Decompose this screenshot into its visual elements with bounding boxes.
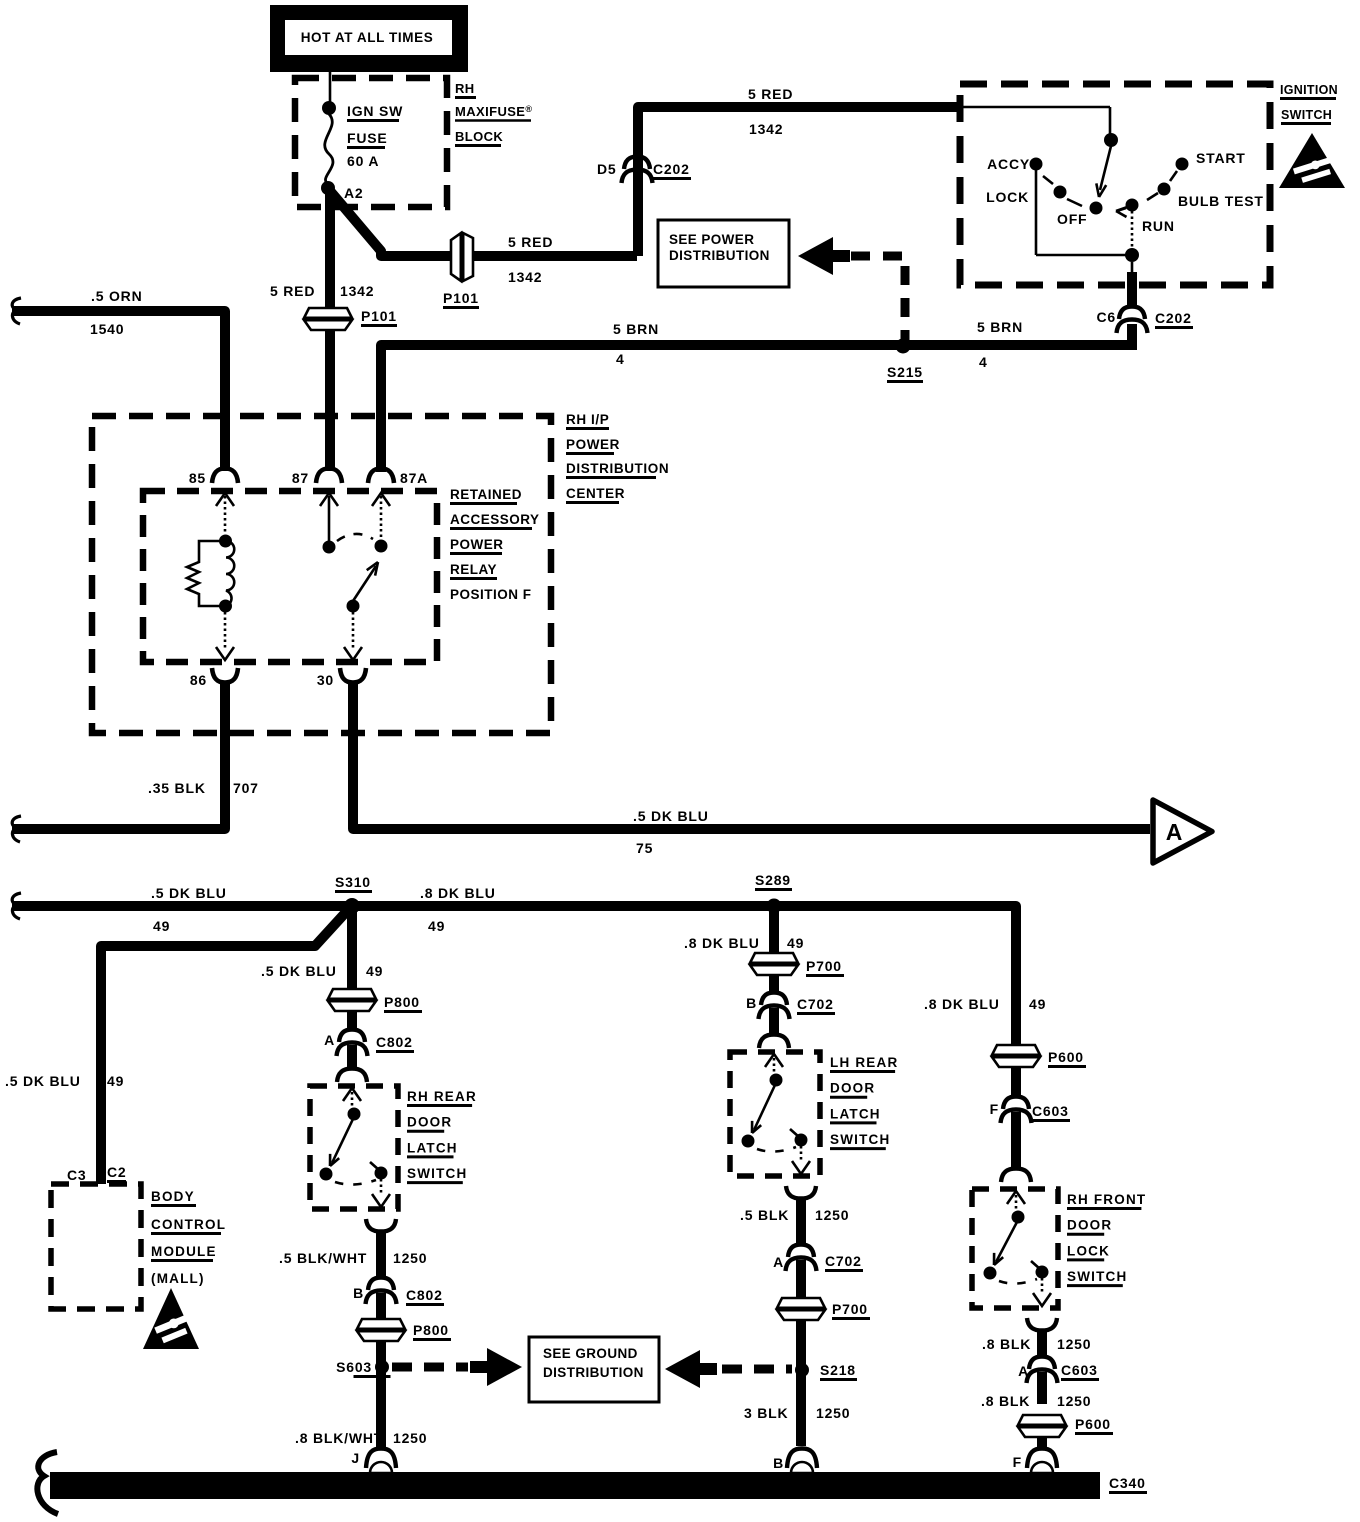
svg-text:LOCK: LOCK: [1067, 1243, 1110, 1258]
LH REAR DOOR LATCH SWITCH: entry arrow: [765, 1054, 783, 1067]
body control module box (dashed): [51, 1184, 141, 1309]
connector bell: [366, 1219, 396, 1232]
block arrow to SEE GROUND box: [487, 1348, 522, 1386]
wire: .5 ORN 1540 from left edge: [12, 311, 225, 471]
ignition: pivot dot: [1104, 133, 1118, 147]
bell into LH REAR switch: [759, 1035, 789, 1049]
svg-text:49: 49: [428, 918, 445, 934]
wire: [347, 1045, 357, 1068]
svg-text:MODULE: MODULE: [151, 1244, 217, 1259]
ignition: BULB TEST contact: [1158, 183, 1171, 196]
connector bell: [340, 668, 366, 683]
svg-text:DISTRIBUTION: DISTRIBUTION: [566, 461, 669, 476]
RH REAR DOOR LATCH SWITCH: wiper arm: [332, 1119, 353, 1163]
svg-text:(MALL): (MALL): [151, 1271, 205, 1286]
svg-text:RH FRONT: RH FRONT: [1067, 1192, 1146, 1207]
connector bell: [368, 1278, 394, 1291]
svg-text:.5 DK BLU: .5 DK BLU: [151, 885, 227, 901]
svg-text:OFF: OFF: [1057, 211, 1087, 227]
connector bell: [212, 469, 238, 484]
connector bell: [337, 1043, 368, 1057]
svg-text:1342: 1342: [749, 121, 783, 137]
svg-text:RH: RH: [455, 81, 475, 96]
svg-text:3 BLK: 3 BLK: [744, 1405, 788, 1421]
wire: [1037, 1372, 1047, 1404]
wire: A2 diagonal to horizontal 5 RED run: [331, 192, 637, 256]
svg-text:49: 49: [1029, 996, 1046, 1012]
svg-text:RELAY: RELAY: [450, 562, 497, 577]
bell into RH FRONT switch: [1001, 1169, 1031, 1183]
wire: 5 BRN bus: [381, 345, 1137, 472]
splice S218: [795, 1363, 809, 1377]
dashed wire S603 to ground-distribution arrow: [392, 1363, 468, 1372]
ESD caution triangle (BCM): [143, 1288, 199, 1349]
relay contact 87: [323, 541, 336, 554]
svg-text:SWITCH: SWITCH: [407, 1166, 467, 1181]
wire: [1127, 324, 1137, 346]
fuse box (dashed) RH MAXIFUSE BLOCK: [295, 78, 447, 207]
LH REAR DOOR LATCH SWITCH: [730, 1052, 820, 1176]
wire: [1011, 1112, 1021, 1168]
svg-text:.5 DK BLU: .5 DK BLU: [261, 963, 337, 979]
ignition: output stub to C6: [1131, 262, 1134, 272]
svg-text:P101: P101: [361, 308, 397, 324]
svg-text:LATCH: LATCH: [407, 1140, 458, 1155]
wire: [796, 1199, 806, 1244]
svg-text:J: J: [351, 1450, 360, 1466]
connector bell: [761, 993, 787, 1006]
SEE GROUND DISTRIBUTION box: [529, 1337, 659, 1402]
svg-text:A2: A2: [344, 185, 364, 201]
svg-text:START: START: [1196, 150, 1246, 166]
wire: pin 86 to left edge (.35 BLK 707): [12, 682, 225, 829]
HOT AT ALL TIMES banner: [270, 5, 468, 72]
svg-text:C6: C6: [1097, 309, 1117, 325]
RH FRONT DOOR LOCK SWITCH: [972, 1189, 1058, 1308]
pass-through P101 (vertical, on horizontal wire): [451, 233, 473, 281]
wire: [376, 1293, 386, 1318]
wire: [347, 1012, 357, 1029]
svg-text:SWITCH: SWITCH: [1067, 1269, 1127, 1284]
pass-through P600: [992, 1045, 1040, 1067]
RH FRONT DOOR LOCK SWITCH: wiper arm: [996, 1222, 1017, 1262]
svg-text:BULB TEST: BULB TEST: [1178, 193, 1264, 209]
wire: [1127, 272, 1137, 306]
svg-text:49: 49: [107, 1073, 124, 1089]
LH REAR DOOR LATCH SWITCH: NO contact: [795, 1134, 808, 1147]
pass-through P800: [328, 989, 376, 1011]
svg-text:C603: C603: [1061, 1362, 1098, 1378]
svg-text:RH I/P: RH I/P: [566, 412, 609, 427]
svg-text:85: 85: [189, 470, 206, 486]
pass-through P600 (lower): [1018, 1415, 1066, 1437]
connector bell: [786, 1186, 816, 1199]
wire: [347, 911, 357, 990]
svg-text:5 BRN: 5 BRN: [977, 319, 1023, 335]
ignition: START contact: [1176, 158, 1189, 171]
wire: [796, 1321, 806, 1446]
relay pin 30: [352, 612, 355, 650]
connector bell: [1029, 1357, 1055, 1370]
svg-text:S289: S289: [755, 872, 791, 888]
SIR caution triangle: [1279, 133, 1345, 188]
ignition switch box (dashed): [960, 84, 1270, 285]
off-page triangle A: [1153, 800, 1212, 863]
connector bell: [1027, 1318, 1057, 1331]
svg-text:POWER: POWER: [566, 437, 620, 452]
svg-text:1250: 1250: [1057, 1393, 1091, 1409]
wire: [376, 1342, 386, 1448]
relay pin 86: [224, 612, 227, 650]
connector bell: [1119, 307, 1145, 320]
svg-text:.8 BLK: .8 BLK: [981, 1393, 1030, 1409]
svg-text:.5 BLK: .5 BLK: [740, 1207, 789, 1223]
svg-text:.8 BLK: .8 BLK: [982, 1336, 1031, 1352]
svg-text:F: F: [990, 1101, 999, 1117]
connector bell: [787, 1449, 817, 1469]
relay contact 87A: [375, 540, 388, 553]
RH FRONT DOOR LOCK SWITCH: entry arrow: [1007, 1191, 1025, 1204]
svg-text:.8 DK BLU: .8 DK BLU: [420, 885, 496, 901]
svg-text:HOT AT ALL TIMES: HOT AT ALL TIMES: [301, 30, 434, 45]
svg-text:ACCESSORY: ACCESSORY: [450, 512, 540, 527]
RH REAR DOOR LATCH SWITCH: travel arc (dashed): [335, 1180, 376, 1185]
svg-text:CENTER: CENTER: [566, 486, 625, 501]
connector bell: [1027, 1449, 1057, 1469]
svg-text:.5 ORN: .5 ORN: [91, 288, 142, 304]
svg-text:LOCK: LOCK: [986, 189, 1029, 205]
svg-text:S215: S215: [887, 364, 923, 380]
RH REAR DOOR LATCH SWITCH: common contact: [348, 1108, 361, 1121]
svg-text:4: 4: [616, 351, 625, 367]
LH REAR DOOR LATCH SWITCH: common contact: [770, 1074, 783, 1087]
svg-text:P800: P800: [413, 1322, 449, 1338]
svg-text:5 RED: 5 RED: [748, 86, 793, 102]
ignition: moving arm with arrow: [1100, 146, 1111, 190]
svg-text:86: 86: [190, 672, 207, 688]
connector bell: [1003, 1097, 1029, 1110]
relay coil: [219, 535, 232, 548]
connector bell: [622, 170, 653, 184]
wire: S310 branch to BCM: [101, 911, 347, 1184]
svg-text:IGN SW: IGN SW: [347, 103, 403, 119]
svg-text:BLOCK: BLOCK: [455, 129, 503, 144]
svg-text:SEE GROUND: SEE GROUND: [543, 1346, 638, 1361]
wire: [796, 1260, 806, 1297]
connector bell: [366, 1449, 396, 1469]
svg-text:1250: 1250: [393, 1250, 427, 1266]
svg-text:75: 75: [636, 840, 653, 856]
block arrow into SEE POWER box: [798, 237, 833, 275]
svg-text:.5 DK BLU: .5 DK BLU: [5, 1073, 81, 1089]
svg-text:FUSE: FUSE: [347, 130, 388, 146]
splice S603: [375, 1360, 389, 1374]
svg-text:C603: C603: [1032, 1103, 1069, 1119]
connector bell: [759, 1006, 790, 1020]
svg-text:POSITION F: POSITION F: [450, 587, 532, 602]
svg-text:4: 4: [979, 354, 988, 370]
svg-text:49: 49: [153, 918, 170, 934]
ignition: ACCY contact: [1030, 158, 1043, 171]
ignition: RUN contact with arm: [1126, 199, 1139, 212]
splice S289: [767, 899, 782, 914]
RH REAR DOOR LATCH SWITCH: [310, 1086, 398, 1209]
svg-text:P101: P101: [443, 290, 479, 306]
svg-text:B: B: [773, 1455, 784, 1471]
wire: [1011, 1068, 1021, 1096]
RH FRONT DOOR LOCK SWITCH: exit arrow: [1041, 1278, 1044, 1294]
connector bell: [788, 1245, 814, 1258]
svg-text:1250: 1250: [1057, 1336, 1091, 1352]
connector bell: [339, 1030, 365, 1043]
wire: pin 30 to A triangle (.5 DK BLU 75): [353, 682, 1150, 829]
LH REAR DOOR LATCH SWITCH: NC contact: [742, 1135, 755, 1148]
svg-text:LATCH: LATCH: [830, 1106, 881, 1121]
bell into RH REAR switch: [337, 1069, 367, 1083]
ignition: LOCK contact: [1054, 186, 1067, 199]
svg-text:P600: P600: [1075, 1416, 1111, 1432]
RH FRONT DOOR LOCK SWITCH: common contact: [1012, 1211, 1025, 1224]
svg-text:1250: 1250: [393, 1430, 427, 1446]
svg-text:5 RED: 5 RED: [270, 283, 315, 299]
svg-text:.8 DK BLU: .8 DK BLU: [924, 996, 1000, 1012]
fuse F: IGN SW FUSE 60A: [322, 101, 336, 115]
wire: [1037, 1331, 1047, 1356]
splice P101 (on vertical wire): [304, 308, 352, 330]
svg-text:1342: 1342: [508, 269, 542, 285]
svg-text:C702: C702: [825, 1253, 862, 1269]
svg-text:SWITCH: SWITCH: [1281, 108, 1332, 122]
svg-text:5 RED: 5 RED: [508, 234, 553, 250]
svg-text:RH REAR: RH REAR: [407, 1089, 477, 1104]
svg-text:CONTROL: CONTROL: [151, 1217, 226, 1232]
svg-text:707: 707: [233, 780, 259, 796]
wire: [769, 1008, 779, 1034]
connector bell: [786, 1258, 817, 1272]
RH REAR DOOR LATCH SWITCH: exit arrow: [380, 1179, 383, 1195]
wire: [1037, 1438, 1047, 1448]
svg-text:C2: C2: [107, 1164, 127, 1180]
svg-text:C340: C340: [1109, 1475, 1146, 1491]
svg-text:C202: C202: [653, 161, 690, 177]
wire: HOT box to fuse: [329, 72, 332, 107]
wire: [769, 911, 779, 954]
svg-text:B: B: [353, 1285, 364, 1301]
svg-text:BODY: BODY: [151, 1189, 195, 1204]
svg-text:RUN: RUN: [1142, 218, 1175, 234]
LH REAR DOOR LATCH SWITCH: travel arc (dashed): [757, 1147, 796, 1152]
dashed wire S218 to arrow: [722, 1365, 792, 1374]
svg-text:87A: 87A: [400, 470, 428, 486]
dashed wire from S215 up to arrow: [851, 256, 905, 347]
splice S215: [896, 339, 911, 354]
svg-text:1250: 1250: [815, 1207, 849, 1223]
svg-text:DOOR: DOOR: [1067, 1218, 1112, 1233]
svg-text:ACCY: ACCY: [987, 156, 1030, 172]
svg-text:D5: D5: [597, 161, 617, 177]
pass-through P800 (lower): [357, 1319, 405, 1341]
svg-text:A: A: [1018, 1363, 1029, 1379]
svg-text:S603: S603: [336, 1359, 372, 1375]
svg-text:C802: C802: [376, 1034, 413, 1050]
relay travel arc (dashed): [337, 534, 373, 541]
ignition: ACCY to RUN wiring: [1035, 170, 1038, 255]
RH FRONT DOOR LOCK SWITCH: NC contact: [984, 1267, 997, 1280]
wire: DK BLU 49 bus: [12, 906, 1016, 1044]
svg-text:5 BRN: 5 BRN: [613, 321, 659, 337]
relay wiper arm to 30: [347, 600, 360, 613]
wire: [325, 191, 335, 309]
svg-text:DISTRIBUTION: DISTRIBUTION: [669, 248, 770, 263]
svg-text:LH REAR: LH REAR: [830, 1055, 898, 1070]
svg-text:.8 DK BLU: .8 DK BLU: [684, 935, 760, 951]
svg-text:C802: C802: [406, 1287, 443, 1303]
wire: [376, 1232, 386, 1277]
svg-text:1250: 1250: [816, 1405, 850, 1421]
connector bell: [366, 1291, 397, 1305]
RH REAR DOOR LATCH SWITCH: entry arrow: [343, 1088, 361, 1101]
pass-through P700: [750, 953, 798, 975]
svg-text:C3: C3: [67, 1167, 87, 1183]
retained accessory power relay box (dashed): [143, 491, 437, 662]
svg-text:F: F: [1013, 1454, 1022, 1470]
svg-text:RETAINED: RETAINED: [450, 487, 522, 502]
svg-text:C202: C202: [1155, 310, 1192, 326]
RH FRONT DOOR LOCK SWITCH: travel arc (dashed): [999, 1279, 1037, 1284]
wire: up to top 5 RED bus and right to ignition switch: [638, 107, 957, 256]
svg-text:C702: C702: [797, 996, 834, 1012]
svg-text:IGNITION: IGNITION: [1280, 83, 1338, 97]
connector bell: [316, 469, 342, 484]
svg-text:POWER: POWER: [450, 537, 504, 552]
svg-text:DISTRIBUTION: DISTRIBUTION: [543, 1365, 644, 1380]
svg-text:DOOR: DOOR: [830, 1081, 875, 1096]
connector bell: [1027, 1370, 1058, 1384]
svg-text:DOOR: DOOR: [407, 1115, 452, 1130]
svg-text:.8 BLK/WHT: .8 BLK/WHT: [295, 1430, 383, 1446]
RH I/P Power Distribution Center box (dashed): [92, 416, 551, 733]
svg-text:49: 49: [787, 935, 804, 951]
RH FRONT DOOR LOCK SWITCH: NO contact: [1036, 1266, 1049, 1279]
RH REAR DOOR LATCH SWITCH: NO contact: [375, 1167, 388, 1180]
connector bell: [368, 469, 394, 484]
svg-text:S218: S218: [820, 1362, 856, 1378]
svg-text:P800: P800: [384, 994, 420, 1010]
svg-text:1342: 1342: [340, 283, 374, 299]
wire: [325, 330, 335, 471]
svg-text:87: 87: [292, 470, 309, 486]
connector bell: [1001, 1110, 1032, 1124]
LH REAR DOOR LATCH SWITCH: wiper arm: [754, 1085, 775, 1130]
svg-text:49: 49: [366, 963, 383, 979]
LH REAR DOOR LATCH SWITCH: exit arrow: [800, 1146, 803, 1162]
block arrow from S218 into SEE GROUND box: [665, 1350, 700, 1388]
ground bus C340: [50, 1472, 1100, 1499]
ignition: OFF contact: [1090, 202, 1103, 215]
svg-text:1540: 1540: [90, 321, 124, 337]
connector bell: [1117, 320, 1148, 334]
splice S310: [344, 898, 360, 914]
svg-text:B: B: [746, 995, 757, 1011]
svg-text:A: A: [1166, 819, 1183, 845]
ignition: feed line to pivot: [957, 106, 1110, 109]
svg-text:S310: S310: [335, 874, 371, 890]
wire: [769, 976, 779, 992]
svg-text:P700: P700: [806, 958, 842, 974]
svg-text:.5 BLK/WHT: .5 BLK/WHT: [279, 1250, 367, 1266]
RH REAR DOOR LATCH SWITCH: NC contact: [320, 1168, 333, 1181]
svg-text:P700: P700: [832, 1301, 868, 1317]
svg-text:60 A: 60 A: [347, 153, 379, 169]
svg-text:SEE POWER: SEE POWER: [669, 232, 754, 247]
svg-text:.35 BLK: .35 BLK: [148, 780, 206, 796]
svg-text:SWITCH: SWITCH: [830, 1132, 890, 1147]
SEE POWER DISTRIBUTION box: [658, 220, 789, 287]
connector bell: [212, 668, 238, 683]
connector bell: [624, 157, 650, 170]
pass-through P700 (lower): [777, 1298, 825, 1320]
svg-text:A: A: [773, 1254, 784, 1270]
svg-text:.5 DK BLU: .5 DK BLU: [633, 808, 709, 824]
svg-text:MAXIFUSE®: MAXIFUSE®: [455, 104, 532, 119]
svg-text:P600: P600: [1048, 1049, 1084, 1065]
svg-text:30: 30: [317, 672, 334, 688]
svg-text:A: A: [324, 1032, 335, 1048]
